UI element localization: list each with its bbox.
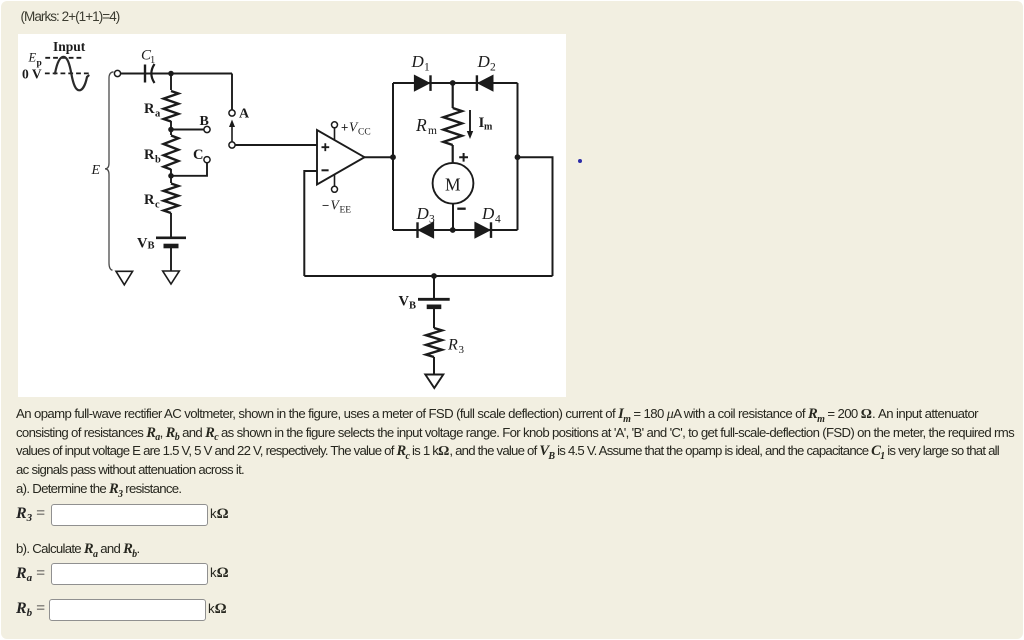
wire down to switch contact A	[231, 74, 233, 110]
wire to contact C	[171, 163, 207, 176]
battery VB (divider)	[156, 238, 186, 246]
label C	[193, 147, 203, 163]
wire battery to ground	[170, 246, 172, 271]
label Ra	[144, 101, 161, 120]
current Im arrow	[467, 110, 473, 139]
switch pole	[229, 142, 235, 148]
svg-text:B: B	[148, 241, 155, 252]
meter M	[433, 163, 474, 204]
wire to battery VB	[433, 276, 435, 299]
svg-text:R: R	[447, 337, 458, 354]
label E	[91, 163, 101, 178]
svg-text:M: M	[445, 175, 461, 195]
label C1	[141, 48, 155, 67]
bridge right wire	[517, 83, 519, 230]
diode D2	[477, 75, 493, 91]
label R3	[447, 337, 465, 357]
label B	[200, 114, 209, 129]
svg-text:B: B	[200, 114, 209, 129]
input terminal	[114, 70, 120, 76]
diode D1	[414, 75, 430, 91]
junction bridge bottom center	[450, 227, 456, 233]
input waveform label	[53, 39, 86, 54]
svg-text:m: m	[484, 122, 493, 133]
junction output node	[390, 154, 396, 160]
wire Rm to meter	[452, 145, 454, 162]
resistor Ra	[164, 91, 179, 122]
label Im	[479, 115, 494, 133]
Ep dashed level line	[45, 57, 84, 59]
switch contact B	[204, 126, 210, 132]
resistor Rc	[164, 184, 179, 214]
svg-text:B: B	[409, 301, 416, 312]
capacitor C1	[145, 64, 155, 83]
wire pole to op-amp + input	[235, 144, 317, 146]
svg-text:R: R	[144, 147, 155, 163]
op-amp -Vee pin	[332, 174, 338, 192]
bridge bottom rail	[393, 229, 518, 231]
svg-text:1: 1	[150, 55, 155, 66]
feedback wire from - input	[304, 171, 317, 276]
svg-text:c: c	[155, 200, 160, 211]
label +Vcc	[341, 120, 371, 138]
bridge top rail	[393, 82, 518, 84]
junction VB branch	[431, 273, 437, 279]
ground (input return)	[116, 271, 133, 285]
0V dashed level line	[45, 72, 90, 74]
label Rc	[144, 192, 160, 211]
resistor R3	[426, 328, 442, 357]
svg-text:E: E	[28, 51, 37, 65]
label D2	[477, 52, 497, 74]
op-amp - input mark	[322, 169, 329, 171]
svg-text:CC: CC	[358, 128, 371, 138]
label 0 V	[22, 67, 42, 82]
svg-text:E: E	[91, 163, 101, 178]
op-amp +Vcc pin	[332, 122, 338, 141]
meter - mark	[457, 208, 465, 210]
junction bridge top center	[450, 80, 456, 86]
input sine wave	[55, 57, 89, 91]
resistor Rb	[164, 136, 179, 170]
svg-text:+: +	[341, 121, 348, 135]
wire meter to bottom rail	[452, 204, 454, 230]
diode D4	[475, 222, 491, 238]
svg-text:b: b	[155, 155, 161, 166]
wire R3 to ground	[433, 357, 435, 374]
svg-text:D: D	[416, 204, 430, 223]
wire Rc to battery	[170, 213, 172, 238]
label Rb	[144, 147, 161, 166]
op-amp output wire	[364, 156, 393, 158]
svg-text:a: a	[155, 109, 161, 120]
svg-text:3: 3	[459, 344, 465, 356]
resistor Rm	[443, 108, 462, 145]
svg-text:Input: Input	[53, 39, 86, 54]
svg-text:3: 3	[429, 214, 435, 226]
svg-text:V: V	[137, 236, 148, 252]
switch wiper arrow	[229, 120, 235, 142]
label A	[239, 107, 250, 122]
bridge left wire	[392, 83, 394, 230]
wire to contact B	[171, 129, 204, 131]
svg-text:2: 2	[490, 62, 496, 74]
label VB (bias)	[399, 294, 417, 312]
node B junction	[168, 127, 174, 133]
svg-text:1: 1	[424, 62, 430, 74]
svg-text:D: D	[481, 204, 495, 223]
brace E	[105, 72, 114, 270]
diode D3	[418, 222, 434, 238]
wire terminal to C1	[121, 73, 232, 75]
wire node to Ra	[170, 74, 172, 91]
battery VB (bias)	[418, 299, 450, 307]
ground (bias network)	[425, 375, 443, 389]
svg-text:−: −	[322, 199, 329, 213]
svg-text:0 V: 0 V	[22, 67, 42, 82]
ground (divider)	[163, 271, 180, 284]
svg-text:R: R	[415, 115, 427, 135]
label Rm	[415, 115, 437, 137]
node C junction	[168, 173, 174, 179]
junction bridge right	[515, 154, 521, 160]
op-amp U1	[317, 130, 365, 185]
meter + mark	[459, 153, 468, 162]
blue dot marker	[578, 159, 582, 163]
svg-text:R: R	[144, 101, 155, 117]
svg-text:V: V	[399, 294, 410, 310]
label Ep	[28, 51, 42, 69]
op-amp + input mark	[322, 143, 330, 151]
wire Rb to Rc	[170, 169, 172, 183]
svg-text:EE: EE	[340, 206, 352, 216]
wire Ra to Rb	[170, 121, 172, 135]
wire bridge right to outer drop	[518, 157, 553, 276]
svg-text:m: m	[428, 125, 437, 137]
svg-text:D: D	[477, 52, 491, 71]
junction input node	[168, 71, 174, 77]
svg-text:C: C	[193, 147, 203, 163]
label D3	[416, 204, 436, 226]
wire battery to R3	[433, 307, 435, 328]
switch contact A	[229, 110, 235, 116]
label D1	[411, 52, 431, 74]
svg-text:R: R	[144, 192, 155, 208]
label D4	[481, 204, 501, 226]
svg-text:4: 4	[495, 214, 501, 226]
svg-text:D: D	[411, 52, 425, 71]
label VB (divider)	[137, 236, 155, 252]
wire top center to Rm	[452, 83, 454, 108]
feedback bottom rail	[304, 275, 552, 277]
label -Vee	[322, 198, 351, 216]
switch contact C	[204, 157, 210, 163]
svg-text:A: A	[239, 107, 250, 122]
